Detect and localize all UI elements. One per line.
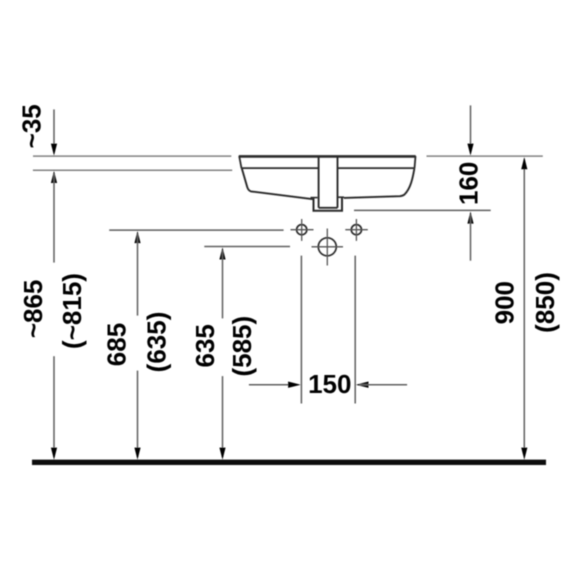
dim ~865 line upper segment [53, 174, 55, 263]
floor line [32, 460, 546, 465]
washbasin inner rim line left [242, 167, 319, 169]
svg-text:(~815): (~815) [57, 273, 87, 349]
faucet hole left circle [297, 225, 307, 235]
svg-text:(635): (635) [141, 312, 171, 373]
685 reference line [109, 229, 283, 231]
dim 900 upper arrow (up) [521, 157, 527, 169]
dim ~865 line lower segment [53, 356, 55, 457]
dim 635 line upper segment [222, 250, 224, 318]
dim 150 right arrow (left) [356, 382, 369, 388]
faucet hole right crosshair vertical [355, 219, 357, 241]
washbasin rim left edge [239, 156, 241, 168]
dim 150 left tail [249, 384, 297, 386]
svg-text:685: 685 [102, 323, 132, 366]
dim 900 line [523, 160, 525, 457]
countertop top line right [427, 155, 543, 157]
hole centerline left vertical [300, 256, 302, 404]
foot step right [337, 196, 344, 198]
svg-text:(850): (850) [530, 272, 560, 333]
washbasin rim right edge [415, 156, 416, 168]
dim 150 right tail [360, 384, 408, 386]
dim 685 upper arrow (up) [134, 231, 140, 243]
dim 635 upper arrow (up) [219, 247, 225, 259]
svg-text:~35: ~35 [17, 104, 47, 148]
drain column right edge [337, 158, 339, 208]
svg-text:~865: ~865 [18, 280, 48, 339]
washbasin left wall and bottom [242, 168, 313, 199]
faucet hole left crosshair vertical [301, 219, 303, 241]
dim 160 upper arrow (down) [467, 144, 473, 156]
dim ~35 upper line [53, 109, 55, 152]
drain column inner bottom [319, 207, 338, 209]
dim 685 line lower segment [137, 371, 139, 457]
hole centerline right vertical [354, 256, 356, 404]
635 reference line [204, 246, 290, 248]
drain hole crosshair vertical [326, 229, 328, 266]
drain hole circle [318, 238, 336, 256]
faucet hole right circle [351, 225, 361, 235]
dim 900 lower arrow (down) [521, 448, 527, 460]
washbasin rim top [239, 155, 416, 158]
drain hole crosshair horizontal [312, 246, 344, 248]
dim 635 lower arrow (down) [219, 448, 225, 460]
washbasin inner rim line right [338, 167, 415, 169]
faucet hole right crosshair horizontal [345, 229, 368, 231]
dim 685 lower arrow (down) [134, 448, 140, 460]
faucet hole left crosshair horizontal [291, 229, 314, 231]
svg-text:150: 150 [308, 369, 351, 399]
countertop top line left [33, 155, 231, 157]
countertop bottom line left [33, 169, 232, 171]
dim 685 line upper segment [137, 234, 139, 316]
foot step left [311, 197, 318, 199]
dim 160 lower arrow (up) [467, 211, 473, 223]
dim ~865 lower arrow (down) [51, 448, 57, 460]
drain column left edge [318, 158, 320, 208]
dim ~35 upper arrow (down) [51, 144, 57, 156]
svg-text:(585): (585) [227, 316, 257, 377]
160 bottom reference line [354, 209, 491, 211]
dim 160 lower line [470, 215, 472, 261]
washbasin right wall and bottom [344, 168, 415, 198]
drain foot outline [314, 198, 343, 211]
svg-text:900: 900 [489, 281, 519, 324]
dim ~865 upper arrow (up) [51, 171, 57, 183]
svg-text:635: 635 [190, 324, 220, 367]
dim 150 left arrow (right) [288, 382, 301, 388]
dim 635 line lower segment [222, 376, 224, 457]
dim 160 upper line [470, 105, 472, 152]
svg-text:160: 160 [454, 162, 484, 205]
